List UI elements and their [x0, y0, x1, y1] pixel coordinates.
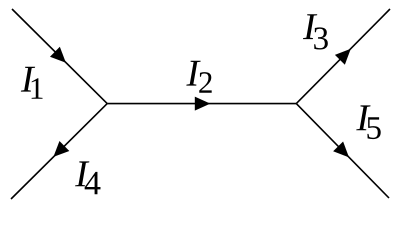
label I3 [303, 14, 328, 49]
arrowhead on wire I4 [48, 141, 69, 162]
label I4 [75, 161, 100, 194]
wire I1 (top-left to left junction) [12, 9, 107, 104]
label I1 [21, 67, 43, 99]
wire I3 (right junction to top-right) [296, 9, 390, 104]
label I5 [356, 105, 380, 139]
arrowhead on wire I1 [50, 47, 71, 68]
arrowhead on wire I3 [335, 44, 356, 65]
arrowhead on wire I2 [195, 97, 211, 111]
wire I5 (right junction to bottom-right) [296, 104, 389, 198]
label I2 [186, 61, 211, 93]
arrowhead on wire I5 [333, 141, 354, 162]
wire I2 (left junction to right junction) [107, 103, 296, 105]
wire I4 (left junction to bottom-left) [11, 104, 107, 199]
